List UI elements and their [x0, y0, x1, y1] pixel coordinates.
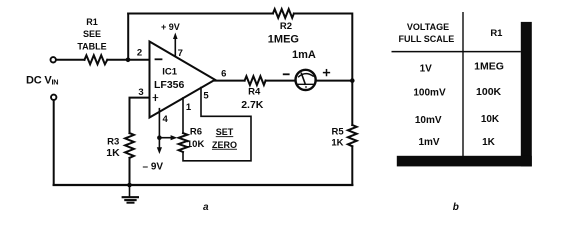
svg-text:VOLTAGE: VOLTAGE: [407, 22, 449, 32]
potentiometer R6: [179, 133, 188, 152]
wire input to R1: [56, 59, 84, 61]
svg-text:1MEG: 1MEG: [474, 61, 504, 73]
wire pin 6 output to R4: [215, 80, 245, 82]
wire R3 to bottom rail: [129, 158, 131, 185]
svg-text:R3: R3: [107, 136, 119, 147]
node junction dot pin2/feedback: [126, 58, 131, 63]
svg-text:b: b: [453, 202, 459, 212]
svg-text:R4: R4: [248, 87, 261, 98]
node junction dot R3 ground: [127, 183, 132, 188]
resistor R1: [85, 55, 108, 64]
svg-text:10mV: 10mV: [415, 115, 442, 126]
resistor R3: [125, 133, 134, 158]
svg-text:SEE: SEE: [83, 29, 101, 39]
svg-text:1K: 1K: [331, 138, 343, 149]
svg-text:1mV: 1mV: [418, 137, 439, 148]
node junction dot meter output to right rail: [350, 78, 355, 83]
pin 7 arrowhead up: [173, 33, 178, 40]
svg-text:1mA: 1mA: [292, 49, 316, 61]
svg-text:a: a: [203, 202, 209, 212]
svg-text:R6: R6: [190, 127, 202, 138]
table column separator: [462, 12, 464, 156]
node junction dot pin4 wiper: [157, 135, 162, 140]
wire lower input to bottom rail: [53, 100, 55, 185]
table thick right border: [521, 22, 532, 167]
svg-text:2: 2: [137, 48, 142, 59]
svg-text:1K: 1K: [482, 137, 496, 148]
meter plus sign: [324, 70, 330, 76]
svg-text:R1: R1: [86, 17, 98, 27]
table thick bottom border: [397, 156, 532, 167]
svg-text:10K: 10K: [187, 139, 205, 150]
svg-text:FULL SCALE: FULL SCALE: [398, 34, 454, 44]
input terminal bottom circle: [51, 95, 56, 100]
resistor R5: [348, 125, 357, 146]
svg-text:1K: 1K: [106, 147, 120, 159]
op-amp plus input mark: [153, 95, 158, 101]
wire right rail below R5: [351, 146, 353, 185]
svg-text:3: 3: [138, 87, 143, 98]
svg-text:R1: R1: [490, 28, 503, 39]
resistor R2: [273, 9, 294, 18]
wire top rail left of R2: [128, 13, 273, 15]
svg-text:ZERO: ZERO: [212, 140, 237, 150]
wire bottom rail: [54, 184, 353, 186]
svg-text:1MEG: 1MEG: [268, 33, 299, 45]
input terminal top circle: [51, 57, 56, 62]
wire R6 bottom loop to pin 5: [183, 88, 251, 161]
svg-text:DC VIN: DC VIN: [26, 74, 58, 86]
op-amp IC1 triangle: [150, 42, 216, 118]
wire pin 3 horizontal: [130, 98, 150, 134]
svg-text:R5: R5: [332, 127, 345, 138]
svg-text:2.7K: 2.7K: [241, 99, 264, 111]
svg-text:6: 6: [221, 68, 226, 79]
svg-text:+ 9V: + 9V: [161, 22, 180, 32]
svg-text:IC1: IC1: [162, 67, 178, 78]
svg-text:1V: 1V: [420, 64, 433, 75]
svg-text:LF356: LF356: [154, 79, 185, 91]
svg-text:– 9V: – 9V: [143, 162, 164, 173]
svg-text:R2: R2: [280, 21, 292, 32]
wire top rail right of R2: [294, 14, 352, 126]
pin 4 arrowhead down to -9V: [157, 147, 162, 154]
wire meter to right rail: [315, 80, 352, 82]
svg-text:100mV: 100mV: [413, 88, 446, 99]
wire R4 to meter: [266, 80, 296, 82]
ground: [123, 185, 138, 203]
wire pin 1 down to R6: [182, 98, 184, 133]
svg-text:7: 7: [178, 48, 183, 59]
svg-text:100K: 100K: [476, 86, 502, 98]
wiper arrowhead right: [171, 135, 178, 140]
wire wiper of R6: [159, 137, 172, 139]
svg-text:SET: SET: [216, 127, 234, 137]
meter minus sign: [284, 73, 289, 75]
svg-text:4: 4: [163, 114, 169, 125]
meter 1mA: [296, 70, 316, 90]
svg-text:10K: 10K: [481, 114, 500, 125]
wire R1 to op-amp pin 2: [107, 59, 149, 61]
svg-text:5: 5: [203, 90, 209, 101]
op-amp minus input mark: [156, 58, 162, 60]
svg-text:1: 1: [186, 102, 192, 113]
wire pin 4 down: [158, 109, 160, 149]
wire feedback left leg: [127, 14, 129, 60]
resistor R4: [245, 76, 266, 85]
wire pin 7 supply: [174, 38, 176, 57]
table header underline: [392, 51, 521, 53]
svg-text:TABLE: TABLE: [77, 42, 106, 52]
